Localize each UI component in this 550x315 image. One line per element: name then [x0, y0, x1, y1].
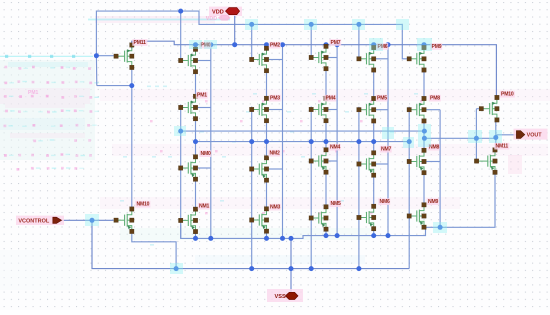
node VDD junctions [193, 42, 198, 47]
svg-text:NM2: NM2 [270, 151, 281, 157]
transistor PM6 [357, 45, 376, 72]
wire bulk tie stage5 [439, 110, 441, 228]
bulk stub PM0 [198, 60, 211, 62]
wire NM4 source to NM5 drain [325, 172, 327, 207]
svg-text:NM10: NM10 [137, 202, 150, 208]
node NM11 source junction [438, 225, 443, 230]
wire PM11 drain to NM10 drain [131, 67, 133, 209]
transistor NM5 [309, 205, 328, 232]
transistor PM11 (PMOS mirror) [114, 43, 134, 70]
label NM4 [329, 144, 341, 151]
wire stage4 output vertical [373, 121, 375, 153]
node buffer junctions [422, 136, 427, 141]
ghost VDD artifact [206, 15, 231, 22]
wire PM2 drain to PM3 source [266, 71, 268, 99]
wire pbias drop to PM2 gate [251, 24, 253, 57]
wire pbias bus (PM11 gate loop to PMOS row gates) [96, 11, 407, 59]
svg-text:VDD: VDD [212, 9, 224, 15]
svg-text:PM11: PM11 [134, 40, 147, 46]
wire NM2 source to NM3 drain [266, 180, 268, 209]
transistor NM1 [179, 207, 198, 234]
wire stage5 output vertical [423, 121, 425, 150]
transistor NM7 [357, 151, 376, 178]
wire NM6 source drop [373, 229, 375, 236]
label PM1 [196, 92, 208, 99]
label PM6 [376, 43, 388, 50]
wire buffer input vertical [475, 109, 477, 161]
label PM4 [324, 95, 336, 102]
bulk stub NM0 [198, 167, 211, 169]
transistor PM9 [407, 45, 426, 72]
svg-text:PM2: PM2 [270, 43, 280, 49]
svg-text:NM0: NM0 [201, 151, 212, 157]
transistor NM11 (output buffer NMOS) [474, 148, 497, 175]
wire VDD rail [132, 41, 497, 95]
label PM2 [269, 42, 281, 49]
transistor PM3 [250, 96, 269, 123]
svg-text:NM7: NM7 [381, 147, 392, 153]
transistor NM10 (NMOS mirror) [114, 207, 134, 234]
port VCONTROL [16, 216, 64, 225]
svg-text:PM9: PM9 [432, 44, 442, 50]
node feedback junctions [178, 129, 183, 134]
bulk stub PM7 [328, 57, 337, 59]
svg-text:PM1: PM1 [197, 93, 207, 99]
port VSS [267, 289, 303, 302]
bulk stub NM7 [376, 163, 388, 165]
port VDD [209, 7, 242, 16]
wire PM6 source stub [373, 45, 375, 48]
transistor PM0 [179, 47, 198, 74]
bulk stub PM1 [198, 107, 211, 109]
wire NM7 source to NM6 drain [373, 175, 375, 206]
wire stub to PM10 gate [476, 108, 479, 110]
wire pbias drop to PM0 gate [180, 11, 182, 58]
transistor NM9 [407, 203, 426, 230]
wire NM8 source to NM9 drain [423, 173, 425, 205]
label NM6 [378, 198, 390, 205]
wire PM0 drain to PM1 source [195, 72, 197, 97]
bulk stub NM2 [269, 168, 283, 170]
wire bulk tie stage4 [387, 45, 389, 236]
label NM2 [268, 150, 280, 157]
label PM8 [429, 95, 441, 102]
wire VCONTROL to NM10 gate [62, 219, 114, 221]
wire buffer output vertical [495, 122, 497, 148]
svg-text:NM11: NM11 [496, 144, 509, 150]
wire stage2 output vertical [266, 121, 268, 158]
label PM7 [329, 39, 341, 46]
node pbias gate taps [249, 22, 254, 27]
svg-text:PM3: PM3 [270, 96, 280, 102]
bulk stub PM5 [376, 109, 388, 111]
node source line junctions [193, 236, 198, 241]
wire VSS symbol drop [290, 238, 292, 292]
svg-text:PM4: PM4 [326, 96, 336, 102]
wire bulk tie stage3 [336, 45, 338, 236]
transistor PM10 (output buffer PMOS) [479, 95, 499, 122]
transistor NM4 [309, 148, 328, 175]
wire PM7 source stub [325, 45, 327, 47]
wire nwell/bulk tie stage1 [210, 45, 212, 239]
wire PM9 source stub [423, 45, 425, 48]
svg-text:NM6: NM6 [380, 199, 391, 205]
node VSS rail junctions [174, 266, 179, 271]
wire PM0 source stub [195, 45, 197, 50]
label PM9 [430, 43, 442, 50]
transistor PM8 [407, 96, 426, 123]
wire pbias drop to PM6 gate [358, 24, 360, 56]
label PM5 [376, 95, 388, 102]
bulk stub PM4 [328, 109, 337, 111]
bulk stub PM2 [269, 59, 283, 61]
wire pbias stub to PM11 gate [97, 55, 114, 57]
wire pbias drop to PM7 gate [310, 24, 312, 55]
node link bus junctions [193, 139, 198, 144]
svg-text:VSS: VSS [275, 294, 286, 300]
bulk stub PM8 [426, 109, 440, 111]
label NM10 [135, 201, 150, 208]
wire PM7 drain to PM4 source [325, 69, 327, 99]
label PM10 [500, 91, 515, 98]
wire NM9 source to NM11 source [424, 172, 495, 227]
label PM11 [132, 39, 147, 46]
svg-text:NM3: NM3 [270, 205, 281, 211]
svg-text:NM5: NM5 [331, 201, 342, 207]
wire pbias left vertical [95, 56, 97, 86]
ghost artifact mottling left region [0, 55, 99, 171]
svg-text:PM10: PM10 [501, 92, 514, 98]
wire NM0 source to NM1 drain [195, 179, 197, 209]
label NM0 [199, 150, 211, 157]
wire pbias to NM10 drain node [97, 85, 132, 87]
svg-text:VCONTROL: VCONTROL [18, 219, 50, 225]
label PM0 [199, 42, 211, 49]
svg-text:NM1: NM1 [199, 204, 210, 210]
label NM11 [494, 143, 509, 150]
junction highlight artifacts [85, 19, 502, 274]
transistor PM5 [357, 96, 376, 123]
node VCONTROL junction [90, 218, 95, 223]
svg-text:PM7: PM7 [331, 40, 341, 46]
wire stage3 output vertical [325, 121, 327, 150]
wire NM10 source to rail [132, 234, 176, 269]
transistor NM8 [407, 148, 426, 175]
wire PM2 source stub [266, 45, 268, 49]
svg-text:VDD: VDD [206, 16, 217, 22]
transistor NM0 [179, 155, 198, 182]
port VOUT [514, 129, 548, 140]
transistor PM7 [309, 44, 328, 71]
wire stage4 input vertical [358, 107, 360, 269]
svg-text:NM9: NM9 [428, 199, 439, 205]
transistor NM3 [250, 207, 269, 234]
wire stage5 output to buffer input and VOUT [424, 135, 516, 139]
label NM7 [380, 146, 392, 153]
transistor PM2 [250, 46, 269, 73]
wire NM5 source drop [325, 229, 327, 235]
wire stage2 input vertical [251, 107, 253, 269]
svg-text:PM8: PM8 [430, 96, 440, 102]
bulk stub NM8 [426, 161, 440, 163]
bulk stub PM6 [376, 58, 388, 60]
transistor NM6 [357, 204, 376, 231]
node pbias junctions [94, 53, 99, 58]
svg-text:PM5: PM5 [377, 96, 387, 102]
wire PM9 drain to PM8 source [423, 70, 425, 99]
label NM3 [269, 204, 281, 211]
label NM8 [428, 144, 440, 151]
bulk stub NM4 [328, 160, 337, 162]
svg-text:VOUT: VOUT [527, 133, 543, 139]
wire NM1 source drop [195, 232, 197, 239]
label PM3 [269, 95, 281, 102]
wire stage1 input vertical [180, 105, 182, 239]
wire NM3 source drop [266, 231, 268, 238]
label NM9 [427, 198, 439, 205]
label NM1 [198, 203, 210, 210]
label NM5 [329, 200, 341, 207]
wire VSS/nbias rail [92, 220, 409, 268]
transistor PM4 [309, 96, 328, 123]
wire stage5 input vertical [408, 107, 410, 269]
svg-text:PM1: PM1 [28, 90, 39, 96]
svg-text:NM4: NM4 [330, 145, 341, 151]
background artifact washes [95, 16, 215, 23]
transistor NM2 [250, 156, 269, 183]
wire VDD symbol stub [234, 15, 236, 45]
sporadic ghost marks mid schematic [120, 86, 423, 246]
wire inter-stage link bus [196, 141, 410, 143]
wire bulk tie stage2 [282, 45, 284, 239]
wire stage3 input vertical [310, 107, 312, 269]
wire stage1 output vertical [195, 119, 197, 157]
wire PM6 drain to PM5 source [373, 70, 375, 99]
transistor PM1 [179, 94, 198, 121]
bulk stub PM3 [269, 109, 283, 111]
wire bottom source line [181, 225, 426, 239]
wire feedback stage5 output to stage1 input [181, 130, 425, 132]
